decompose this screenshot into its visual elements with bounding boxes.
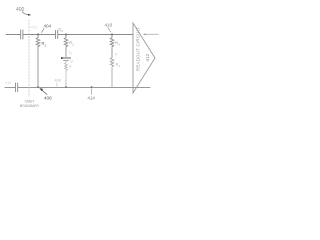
label 410: [105, 23, 113, 33]
label 408: [55, 79, 61, 87]
top rail wire: [6, 34, 21, 36]
label R4: [116, 62, 121, 68]
svg-text:1: 1: [61, 29, 63, 33]
label 406: [40, 88, 53, 100]
svg-text:CMUT: CMUT: [25, 100, 35, 104]
CMUT boundary dashed line: [28, 20, 30, 97]
label R3: [115, 40, 120, 46]
svg-text:R: R: [69, 65, 72, 69]
label C1: [59, 27, 64, 33]
svg-text:406: 406: [44, 96, 52, 101]
svg-text:4: 4: [118, 64, 120, 68]
capacitor (CMUT bottom electrode): [16, 83, 18, 92]
op-amp U1 triangle: [133, 23, 155, 93]
resistor R2: [64, 35, 68, 57]
bottom rail wire: [5, 86, 15, 88]
label R2: [69, 40, 74, 46]
resistor R4: [110, 58, 113, 88]
capacitor C1: [56, 31, 58, 39]
svg-text:BOUNDARY: BOUNDARY: [20, 104, 40, 108]
svg-text:3: 3: [118, 42, 120, 46]
svg-text:412: 412: [145, 53, 150, 61]
svg-text:1: 1: [45, 43, 47, 47]
node dot: [91, 86, 93, 88]
resistor R1: [36, 35, 40, 88]
leader arrow to op-amp: [143, 34, 159, 36]
svg-text:2: 2: [72, 42, 74, 46]
resistor R3: [110, 35, 114, 58]
svg-text:410: 410: [105, 23, 113, 28]
node dot: [65, 34, 67, 36]
svg-text:408: 408: [55, 79, 61, 83]
svg-text:READOUT CIRCUIT: READOUT CIRCUIT: [136, 27, 141, 71]
wire: [18, 86, 150, 88]
svg-text:V: V: [115, 53, 118, 57]
capacitor (CMUT top electrode): [21, 30, 23, 39]
label 414: [88, 89, 96, 101]
svg-text:416: 416: [5, 81, 11, 85]
resistor R5 faint: [65, 60, 68, 87]
figure label 400: [16, 7, 31, 16]
svg-text:402: 402: [31, 25, 38, 30]
battery V1: [61, 57, 74, 64]
node dot: [37, 34, 39, 36]
node dot: [111, 34, 113, 36]
wire: [23, 34, 55, 36]
svg-text:404: 404: [44, 24, 52, 29]
svg-text:400: 400: [16, 7, 25, 13]
node dot: [37, 86, 39, 88]
wire: [58, 34, 133, 36]
label R1: [42, 41, 47, 47]
label I1: [69, 51, 72, 56]
CMUT BOUNDARY text: [20, 100, 40, 109]
svg-text:414: 414: [88, 96, 96, 101]
node dot: [65, 86, 67, 88]
svg-text:V: V: [71, 60, 74, 64]
svg-text:1: 1: [70, 52, 72, 56]
label 404: [42, 24, 52, 33]
op-amp label text (rotated): [136, 27, 151, 71]
